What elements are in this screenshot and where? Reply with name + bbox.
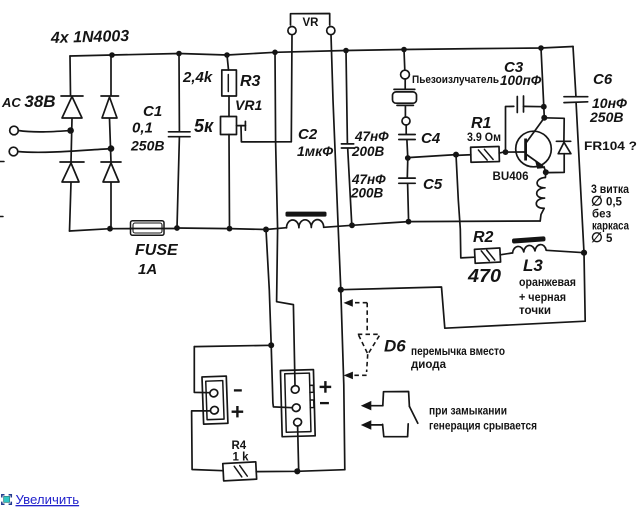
node: junction above battery connector <box>268 342 274 348</box>
switch symbol (test short) <box>361 392 418 437</box>
svg-text:C1: C1 <box>143 103 162 120</box>
svg-text:оранжевая: оранжевая <box>519 277 576 289</box>
capacitor C4 <box>399 135 415 159</box>
svg-text:4x 1N4003: 4x 1N4003 <box>50 28 130 47</box>
connector X1 (2-pin) <box>202 376 228 424</box>
svg-text:перемычка вместо: перемычка вместо <box>411 346 505 358</box>
node: bottom rail junction C2 <box>349 222 355 228</box>
wire: bridge right leg upper <box>110 55 112 96</box>
node: rail junction long output line <box>272 50 278 56</box>
wire: bridge left leg upper <box>69 56 72 96</box>
svg-text:C2: C2 <box>298 126 318 143</box>
svg-text:250В: 250В <box>130 138 164 154</box>
capacitor C3 100pF <box>506 96 544 152</box>
wire: long output line from top rail to connector X2 top pin <box>275 52 295 385</box>
node: C6/L3 junction <box>581 250 587 256</box>
wire: AC input 1 to bridge <box>18 131 70 132</box>
capacitor C5 <box>399 158 415 222</box>
resistor R1 3.9 Ohm <box>456 146 506 162</box>
transformer primary winding (in bottom rail) <box>286 220 323 228</box>
terminal: VR right <box>327 27 335 35</box>
capacitor C6 10nF 250V <box>564 47 588 253</box>
inductor L2 (3 turns air core) at emitter <box>536 172 546 221</box>
svg-text:C5: C5 <box>423 176 443 193</box>
svg-text:∅ 5: ∅ 5 <box>591 230 613 245</box>
diode D6 (dashed, optional) <box>358 334 381 372</box>
svg-text:диода: диода <box>411 359 447 371</box>
svg-text:200В: 200В <box>350 186 384 201</box>
diode bridge D2 (upper right) <box>101 96 119 118</box>
terminal: AC input 1 <box>10 126 19 135</box>
label: X2 plus <box>320 381 332 393</box>
svg-text:0,1: 0,1 <box>132 120 153 137</box>
svg-text:VR1: VR1 <box>235 97 262 113</box>
node: bottom rail junction bridge <box>107 226 113 232</box>
fuse FUSE 1A <box>130 221 177 236</box>
diode bridge D1 (upper left) <box>61 96 83 118</box>
wire: VR right terminal long run down (crosses both rails) to D6 node <box>331 35 345 470</box>
node: AC tap on left leg <box>67 127 74 134</box>
icon: zoom link <box>2 495 12 505</box>
svg-text:VR: VR <box>303 17 320 29</box>
wire: AC input 2 to bridge <box>18 149 111 153</box>
svg-text:1A: 1A <box>138 261 157 278</box>
svg-text:точки: точки <box>519 305 551 317</box>
node: base/C3 junction <box>503 149 509 155</box>
node: AC tap on right leg <box>108 145 115 152</box>
piezo transducer branch <box>393 50 417 134</box>
label: X2 minus <box>320 402 329 404</box>
label: 3 vitka note <box>591 184 630 245</box>
node: rail junction C1 <box>176 51 182 57</box>
wire: L3 to right node <box>546 250 584 252</box>
svg-text:470: 470 <box>467 266 501 286</box>
node: rail junction R3 <box>224 52 230 58</box>
svg-text:200В: 200В <box>351 144 385 159</box>
resistor R2 470 <box>474 248 500 263</box>
inductor L3 core bar <box>512 236 546 243</box>
svg-text:R2: R2 <box>473 229 494 246</box>
node: collector junction <box>541 115 547 121</box>
wire: bottom rail right of transformer <box>324 221 540 227</box>
node: emitter junction <box>543 169 549 175</box>
svg-text:без: без <box>592 209 611 221</box>
svg-text:+ черная: + черная <box>519 292 566 304</box>
label: L3 winding note <box>519 277 576 317</box>
wire: left leg lower <box>70 183 72 232</box>
resistor R3 2.4k <box>222 55 237 117</box>
terminal: VR left <box>288 27 296 35</box>
label: switch note <box>429 406 537 433</box>
connector VR external: bracket <box>291 14 330 26</box>
node: junction R4 / X2 bottom pin <box>294 468 300 474</box>
wire: top supply rail <box>70 47 573 57</box>
transformer primary core bar <box>286 212 327 217</box>
node: R1 left junction (to R2 branch) <box>453 152 459 158</box>
node: C4/C5/R1 junction <box>405 155 411 161</box>
wire: bottom rail fuse to transformer <box>177 228 287 230</box>
wire: return loop from C6/L3 node to D6 node <box>341 253 585 329</box>
diode bridge D4 (lower right) <box>101 162 121 182</box>
svg-text:250В: 250В <box>589 109 623 125</box>
wire: X2 bottom pin down to R4 node <box>298 426 299 471</box>
diode FR104 (parallel C-E) <box>544 118 571 173</box>
svg-text:R3: R3 <box>240 73 261 90</box>
svg-text:R4: R4 <box>232 440 247 452</box>
svg-text:47нФ: 47нФ <box>354 129 389 144</box>
connector X2 (3-pin) <box>280 370 315 437</box>
wire: VR1 wiper down and right <box>241 126 291 142</box>
wire: right leg lower <box>110 183 112 229</box>
node: bottom rail junction output line <box>263 227 269 233</box>
label: X1 plus <box>232 406 244 417</box>
svg-text:L3: L3 <box>523 256 543 275</box>
potentiometer VR1 5k <box>221 117 246 229</box>
node: bottom rail junction C1 <box>174 225 180 231</box>
svg-text:1 k: 1 k <box>233 452 250 464</box>
node: C3/collector junction <box>541 104 547 110</box>
scan artifact tick left edge 2 <box>0 216 3 218</box>
svg-text:C6: C6 <box>593 71 613 88</box>
wire: left leg between diodes <box>71 119 72 163</box>
resistor R4 1k <box>223 462 257 481</box>
svg-text:BU406: BU406 <box>493 169 529 183</box>
svg-text:R1: R1 <box>471 115 492 132</box>
node: rail junction piezo <box>401 47 407 53</box>
svg-text:∅ 0,5: ∅ 0,5 <box>591 194 623 209</box>
label: X1 minus <box>234 389 242 391</box>
node: rail junction C2 <box>343 48 349 54</box>
svg-text:C4: C4 <box>421 130 441 147</box>
wire: R4 to corner (return) <box>256 470 345 472</box>
svg-text:D6: D6 <box>384 337 406 356</box>
svg-text:генерация срывается: генерация срывается <box>429 421 537 433</box>
wire: bottom rail node down to connector X2 middle pin <box>266 230 292 408</box>
wire: R2 to L3 <box>500 253 512 255</box>
pin: X2 middle <box>291 403 301 413</box>
wire: right leg between diodes <box>110 119 112 163</box>
pin: X1 lower <box>209 405 219 415</box>
scan artifact tick left edge 1 <box>0 161 4 163</box>
wire: R2 branch down from base node (crosses bottom rail) <box>456 155 475 258</box>
pin: X2 bottom <box>292 417 302 427</box>
transistor Q1 BU406 <box>516 118 552 172</box>
wire: junction to left connector branch <box>194 345 271 346</box>
terminal: AC input 2 <box>9 147 18 156</box>
node: rail junction C3/collector <box>538 45 544 51</box>
pin: X2 top <box>290 384 300 394</box>
node: bottom rail junction pot <box>227 226 233 232</box>
svg-text:1мкФ: 1мкФ <box>297 143 333 159</box>
svg-text:Пьезоизлучатель: Пьезоизлучатель <box>412 74 499 86</box>
wire: collector line from top rail <box>541 48 544 118</box>
wire: bottom rail left of fuse <box>70 229 134 231</box>
svg-text:100пФ: 100пФ <box>500 73 542 88</box>
inductor L3 winding <box>513 245 547 253</box>
svg-text:3.9 Ом: 3.9 Ом <box>467 132 501 144</box>
svg-text:5к: 5к <box>194 116 214 136</box>
svg-text:AC 38В: AC 38В <box>1 92 56 111</box>
wire: X1 plus pin to R4 <box>192 411 224 471</box>
dashed arrow lower <box>344 372 367 380</box>
svg-text:при замыкании: при замыкании <box>429 406 507 418</box>
svg-text:2,4k: 2,4k <box>182 69 213 86</box>
node: rail junction at bridge right leg <box>109 52 115 58</box>
svg-text:FR104 ?: FR104 ? <box>584 141 637 153</box>
capacitor C1 <box>169 54 191 229</box>
node: bottom rail junction C5 <box>406 219 412 225</box>
capacitor C2 1uF <box>341 51 353 226</box>
label: jumper note <box>411 346 505 371</box>
dashed arrow upper (D6 placement) <box>344 299 368 334</box>
svg-text:FUSE: FUSE <box>135 242 179 259</box>
wire: down to X1 minus pin <box>194 347 210 393</box>
diode bridge D3 (lower left) <box>60 162 84 182</box>
node: D6 tap node <box>338 287 344 293</box>
wire: base wire into transistor <box>506 151 525 153</box>
svg-text:Увеличить: Увеличить <box>16 492 80 507</box>
wire: node to R1 <box>408 155 456 158</box>
pin: X1 upper <box>209 388 219 398</box>
wire: VR left terminal to wiper (crosses top rail) <box>290 35 293 142</box>
